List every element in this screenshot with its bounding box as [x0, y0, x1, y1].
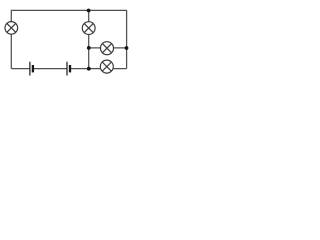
- junction node right rail / parallel branch: [125, 46, 129, 50]
- wire left rail: [10, 10, 12, 69]
- lamp L1 (left): [5, 22, 18, 35]
- lamp L2 (middle branch): [82, 22, 95, 35]
- lamp L4 (parallel bottom, on bottom rail): [100, 60, 113, 73]
- battery cell 1 long plate: [29, 62, 31, 76]
- wire parallel branch horizontal: [89, 47, 127, 49]
- lamp L3 (parallel top): [101, 42, 114, 55]
- battery cell 2 short thick plate: [69, 65, 71, 72]
- wire top rail: [11, 9, 126, 11]
- wire bottom rail segment 3: [71, 68, 127, 70]
- junction node middle branch / parallel branch: [87, 46, 91, 50]
- junction node top rail: [87, 9, 91, 13]
- wire middle branch vertical: [88, 10, 90, 68]
- battery cell 1 short thick plate: [32, 65, 34, 72]
- wire bottom rail segment 1: [11, 68, 29, 70]
- circuit schematic: battery (2 cells) with lamp L1 in series, lamp L2 branch, parallel lamps L3/L4: [0, 0, 140, 80]
- battery cell 2 long plate: [66, 62, 68, 76]
- junction node middle branch / bottom rail: [87, 67, 91, 71]
- wire bottom rail segment 2 (between battery cells): [33, 68, 66, 70]
- wire right rail: [126, 10, 128, 69]
